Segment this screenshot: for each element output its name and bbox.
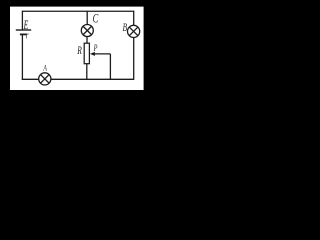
wire rheostat bottom to bottom wire [86,64,88,80]
wire right lower: lamp B down to bottom-right corner [133,38,135,80]
svg-text:P: P [93,43,98,54]
wire top: from top-left corner to top-right corner [22,10,133,12]
paper background [10,7,144,90]
wire bottom left: corner to lamp A [22,78,39,80]
svg-text:A: A [43,63,48,72]
battery E short thick plate [20,33,27,35]
svg-text:C: C [93,12,99,26]
rheostat R box [84,43,89,64]
lamp B circle [128,25,140,37]
lamp C circle [81,25,93,37]
svg-text:B: B [123,23,128,35]
wire lamp C to rheostat R [86,37,88,44]
svg-text:r: r [26,29,29,41]
slider arrowhead pointing left at box [90,52,95,56]
lamp A circle [39,73,51,85]
lamp A cross [40,75,49,84]
lamp B cross [129,27,138,36]
wire left upper: corner down to battery [21,11,23,30]
lamp C cross [83,26,91,34]
wire left lower: battery down to bottom-left corner [21,35,23,80]
battery E long plate [16,29,31,31]
slider P arm horizontal wire [94,53,111,55]
svg-text:R: R [77,45,82,58]
wire bottom right: lamp A to bottom-right corner [51,78,134,80]
wire lamp C branch upper: top wire down to lamp C [86,11,88,24]
wire right upper: top-right corner down to lamp B [133,11,135,26]
slider P arm vertical wire down to bottom wire [109,54,111,79]
